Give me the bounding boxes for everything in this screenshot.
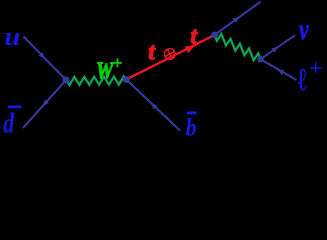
svg-text:+: + <box>113 53 123 73</box>
svg-text:ν: ν <box>299 13 309 46</box>
svg-text:b: b <box>186 114 197 136</box>
svg-text:u: u <box>4 22 20 51</box>
svg-text:+: + <box>309 55 322 80</box>
svg-text:t: t <box>190 24 198 50</box>
svg-text:t: t <box>148 40 156 66</box>
svg-text:d: d <box>3 109 14 136</box>
svg-text:ℓ: ℓ <box>298 63 307 98</box>
